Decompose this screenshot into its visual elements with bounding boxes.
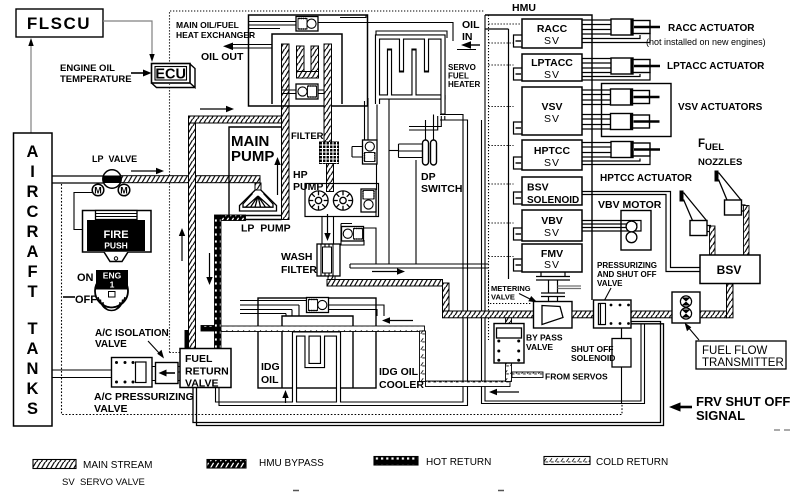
hot return stub left <box>201 326 215 332</box>
svg-text:IDG: IDG <box>261 361 280 373</box>
servo valve box FMV <box>489 244 583 272</box>
RACC actuator body <box>611 19 650 35</box>
fuel nozzle 2 <box>715 171 746 216</box>
svg-text:SV: SV <box>544 35 560 47</box>
FIRE pushbutton <box>83 211 152 262</box>
VSV lower actuator body <box>611 114 650 130</box>
up arrow inside main pump <box>277 163 279 195</box>
servo valve symbol (heat exchanger bottom) <box>296 84 318 99</box>
BSV valve <box>700 255 760 284</box>
svg-text:ON: ON <box>77 272 94 284</box>
IDG cooler inner box <box>282 316 353 388</box>
LP valve symbol <box>92 170 130 196</box>
svg-text:VALVE: VALVE <box>491 293 515 302</box>
svg-text:VBV: VBV <box>541 215 563 227</box>
metering valve <box>534 302 573 329</box>
HMU internal supply line <box>485 29 509 279</box>
pipe HP pump to wash filter (with arrow) <box>322 217 334 245</box>
from servos pipe <box>512 372 543 378</box>
LP pump inducer (funnel) <box>255 183 261 190</box>
fuel flow transmitter label box <box>696 341 786 369</box>
svg-text:BSV: BSV <box>527 182 549 194</box>
dotted feed line to RACC <box>489 23 523 25</box>
svg-text:PUSH: PUSH <box>104 241 128 251</box>
svg-text:VALVE: VALVE <box>526 342 553 352</box>
svg-text:OIL OUT: OIL OUT <box>201 51 244 63</box>
svg-text:PRESSURIZING: PRESSURIZING <box>597 261 657 270</box>
flow arrow right (servo return) <box>372 271 398 273</box>
svg-text:HPTCC: HPTCC <box>534 145 571 157</box>
svg-text:TEMPERATURE: TEMPERATURE <box>60 74 132 85</box>
heat exchanger internal oil lines <box>249 15 454 94</box>
flow arrow up (riser) <box>181 234 183 261</box>
svg-text:IN: IN <box>462 31 473 43</box>
svg-text:LPTACC: LPTACC <box>531 57 573 69</box>
servo valve box HPTCC <box>489 140 583 170</box>
svg-text:SV: SV <box>544 113 560 125</box>
svg-text:F: F <box>27 263 37 281</box>
svg-text:OIL: OIL <box>261 374 279 386</box>
LPTACC actuator body <box>611 58 650 74</box>
flow arrow above pipe <box>131 170 158 172</box>
svg-text:COLD RETURN: COLD RETURN <box>596 457 668 468</box>
svg-text:FRV SHUT OFF: FRV SHUT OFF <box>696 394 790 409</box>
HP pump gears <box>309 191 353 210</box>
svg-text:M: M <box>120 186 128 196</box>
servo valve symbol (IDG top) <box>307 298 329 313</box>
nozzle 2 feed pipe <box>744 206 750 256</box>
svg-text:HMU BYPASS: HMU BYPASS <box>259 458 324 469</box>
svg-text:VALVE: VALVE <box>185 378 218 390</box>
ENG 1 start switch <box>75 270 128 311</box>
servo valve box LPTACC <box>489 54 583 81</box>
RACC actuator ducts <box>582 20 650 43</box>
HPTCC actuator body <box>611 142 650 158</box>
svg-text:HEATER: HEATER <box>448 80 481 89</box>
outer dashed enclosure of fuel system <box>170 11 489 353</box>
svg-text:SIGNAL: SIGNAL <box>696 408 745 423</box>
svg-text:LP PUMP: LP PUMP <box>241 223 291 235</box>
VSV actuators enclosure <box>602 84 672 137</box>
svg-text:NOZZLES: NOZZLES <box>698 157 742 168</box>
servo supply lines <box>341 98 489 268</box>
heat exchanger right leg pipe to filter <box>324 44 332 143</box>
servo valve symbol (wash filter line) <box>342 227 364 242</box>
servo return loop (PSOV to HMU base) <box>482 15 645 404</box>
A/C pressurizing valve <box>112 358 153 388</box>
black bar into fuel return valve <box>185 330 189 349</box>
legend main stream <box>33 460 76 469</box>
svg-text:RACC: RACC <box>537 23 568 35</box>
cooler top oil lines <box>240 301 384 317</box>
svg-text:T: T <box>27 320 37 338</box>
svg-text:S: S <box>27 400 38 418</box>
svg-text:I: I <box>30 163 35 181</box>
bypass stub down to bypass valve <box>506 318 512 325</box>
by-pass valve <box>494 324 524 364</box>
METERING VALVE label (dotted sub-box) <box>489 272 531 304</box>
svg-text:BY PASS: BY PASS <box>526 333 563 343</box>
svg-text:WASH: WASH <box>281 251 313 263</box>
MAIN PUMP enclosure <box>229 127 282 220</box>
inner double-line return loop (FRV to pump enclosure) <box>216 115 468 406</box>
svg-text:A/C ISOLATION: A/C ISOLATION <box>95 328 169 339</box>
svg-text:MAIN OIL/FUEL: MAIN OIL/FUEL <box>176 20 239 30</box>
main stream pipe LP valve to LP pump <box>120 176 260 183</box>
servo valve box VBV <box>489 210 583 241</box>
hmu bypass pipe into pump inlet <box>221 215 246 221</box>
down arrow beside riser <box>209 253 211 279</box>
svg-text:BSV: BSV <box>717 263 742 277</box>
wire LP valve motor to fire switch <box>74 193 92 230</box>
DP switch symbol <box>423 140 437 165</box>
svg-text:SOLENOID: SOLENOID <box>571 353 615 363</box>
servo heater outlet lines <box>440 95 445 115</box>
filter element (checkered) <box>320 142 339 164</box>
svg-text:FILTER: FILTER <box>281 264 317 276</box>
svg-text:COOLER: COOLER <box>379 379 424 391</box>
HMU frame <box>485 15 592 300</box>
ECU 3-D box <box>152 64 196 88</box>
pipe tanks to A/C pressurizing valve <box>52 362 180 381</box>
left arrow above cooler right <box>390 320 413 322</box>
svg-text:SV SERVO VALVE: SV SERVO VALVE <box>62 477 145 488</box>
VSV upper actuator body <box>611 89 650 105</box>
main stream pipe metering valve to PSOV <box>572 311 594 318</box>
svg-text:VSV: VSV <box>541 101 562 113</box>
servo valve box RACC <box>489 19 583 48</box>
shut off solenoid <box>621 328 623 339</box>
main stream riser pipe (return to pump inlet) <box>189 116 196 349</box>
main stream top header pipe <box>189 116 290 123</box>
svg-text:SV: SV <box>544 227 560 239</box>
IDG serpentine <box>295 334 339 402</box>
oil out arrow <box>223 43 233 51</box>
servo valve symbol (heat exchanger top) <box>296 17 318 32</box>
oil out lines <box>231 45 272 49</box>
svg-text:A: A <box>27 243 39 261</box>
svg-text:VSV ACTUATORS: VSV ACTUATORS <box>678 102 763 113</box>
svg-text:RACC ACTUATOR: RACC ACTUATOR <box>668 23 755 34</box>
servo valve box BSV SOLENOID <box>489 177 583 206</box>
svg-text:FILTER: FILTER <box>291 131 324 142</box>
cold return pipe across cooler <box>221 326 425 332</box>
svg-text:HMU: HMU <box>512 2 536 14</box>
svg-text:DP: DP <box>421 171 436 183</box>
svg-text:FUEL: FUEL <box>185 353 213 365</box>
svg-text:SV: SV <box>544 69 560 81</box>
nozzle 1 feed pipe <box>710 226 716 255</box>
main stream pipe PSOV to FFT <box>631 311 672 318</box>
OFF tick dash <box>63 296 75 298</box>
svg-text:VALVE: VALVE <box>597 279 623 288</box>
FMV linkage to metering valve <box>536 272 570 302</box>
svg-text:HP: HP <box>293 169 308 181</box>
svg-text:OIL: OIL <box>462 19 480 31</box>
svg-text:LPTACC ACTUATOR: LPTACC ACTUATOR <box>667 61 765 72</box>
FLSCU box <box>16 9 103 37</box>
svg-text:FIRE: FIRE <box>103 229 128 241</box>
label arrow <box>148 341 160 354</box>
page bottom stray marks <box>293 490 504 492</box>
svg-text:1: 1 <box>110 280 115 290</box>
IDG oil cooler outer box <box>258 298 376 388</box>
FRV shut off signal arrow <box>678 406 692 409</box>
svg-text:OFF: OFF <box>75 294 97 306</box>
svg-text:R: R <box>27 183 39 201</box>
svg-text:SWITCH: SWITCH <box>421 183 462 195</box>
pipe filter to HP pump <box>327 164 334 192</box>
svg-text:SOLENOID: SOLENOID <box>527 195 579 206</box>
heat exchanger main leg pipe <box>282 44 290 220</box>
FRV shut off signal dashed wire <box>62 184 623 415</box>
wash filter element (striped) <box>317 244 340 276</box>
svg-text:HPTCC ACTUATOR: HPTCC ACTUATOR <box>600 173 693 184</box>
arrow into ECU <box>131 72 145 74</box>
FUEL RETURN VALVE box <box>180 349 231 388</box>
legend hot return <box>374 457 418 466</box>
svg-text:AND SHUT OFF: AND SHUT OFF <box>597 270 657 279</box>
link BSV solenoid to BSV valve <box>582 192 700 272</box>
pressurizing and shut off valve <box>594 300 632 328</box>
HPTCC actuator ducts <box>582 143 650 165</box>
svg-text:VALVE: VALVE <box>95 339 127 350</box>
svg-text:VBV MOTOR: VBV MOTOR <box>598 199 662 211</box>
svg-text:M: M <box>94 186 102 196</box>
wire tanks to FLSCU (gray, arrow up) <box>30 45 32 133</box>
svg-text:T: T <box>27 283 37 301</box>
svg-text:ECU: ECU <box>155 67 186 83</box>
VBV motor <box>582 211 651 251</box>
main oil/fuel heat exchanger <box>249 15 368 106</box>
svg-text:FROM SERVOS: FROM SERVOS <box>545 372 608 382</box>
outer double-line return loop (FRV to right side) <box>193 322 664 426</box>
svg-text:TRANSMITTER: TRANSMITTER <box>702 357 784 369</box>
svg-text:SV: SV <box>544 259 560 271</box>
fuel flow transmitter <box>672 292 700 323</box>
svg-text:IDG OIL: IDG OIL <box>379 366 419 378</box>
LPTACC actuator ducts <box>582 59 650 81</box>
svg-text:RETURN: RETURN <box>185 366 229 378</box>
flow arrow right (top header) <box>200 108 228 110</box>
pipe tank to LP valve (plain) <box>52 176 103 183</box>
svg-text:VALVE: VALVE <box>94 403 127 415</box>
svg-text:K: K <box>27 380 39 398</box>
svg-text:N: N <box>27 360 39 378</box>
svg-text:FLSCU: FLSCU <box>27 14 91 33</box>
svg-text:A/C PRESSURIZING: A/C PRESSURIZING <box>94 391 194 403</box>
HP pump enclosure <box>305 184 379 217</box>
fuel nozzle 1 <box>680 191 712 236</box>
svg-text:C: C <box>27 203 39 221</box>
heat exchanger inner U pipe (main stream) <box>297 46 305 78</box>
svg-text:A: A <box>27 340 39 358</box>
svg-text:A: A <box>27 143 39 161</box>
svg-text:R: R <box>27 223 39 241</box>
svg-text:PUMP: PUMP <box>231 148 274 165</box>
legend hmu bypass <box>207 460 246 469</box>
hot return riser pipe down to fuel return valve <box>215 215 222 349</box>
svg-text:HOT RETURN: HOT RETURN <box>426 457 491 468</box>
servo valve symbol (filter outlet) <box>363 140 378 164</box>
svg-text:SV: SV <box>544 157 560 169</box>
legend cold return <box>544 457 590 465</box>
AIRCRAFT TANKS box <box>14 133 53 426</box>
left arrow under return <box>497 391 519 393</box>
svg-text:(not installed on new engines): (not installed on new engines) <box>646 37 766 47</box>
servo valve box VSV <box>489 87 583 135</box>
servo valve symbol (HP pump outlet) <box>361 189 376 212</box>
svg-text:MAIN STREAM: MAIN STREAM <box>83 460 152 471</box>
main stream pipe wash filter down & across <box>328 276 335 281</box>
servo fuel heater serpentine <box>378 37 444 104</box>
up arrow below cooler <box>285 396 287 403</box>
svg-text:HEAT EXCHANGER: HEAT EXCHANGER <box>176 30 255 40</box>
svg-text:LP VALVE: LP VALVE <box>92 154 137 164</box>
wire FLSCU to ECU (gray) <box>103 21 152 55</box>
svg-text:UEL: UEL <box>705 142 724 153</box>
main stream pipe FFT to BSV riser <box>700 311 727 318</box>
svg-text:F: F <box>698 138 705 150</box>
A/C isolation valve symbol <box>156 363 179 384</box>
svg-text:ENGINE OIL: ENGINE OIL <box>60 63 115 74</box>
svg-text:FUEL FLOW: FUEL FLOW <box>702 345 768 357</box>
